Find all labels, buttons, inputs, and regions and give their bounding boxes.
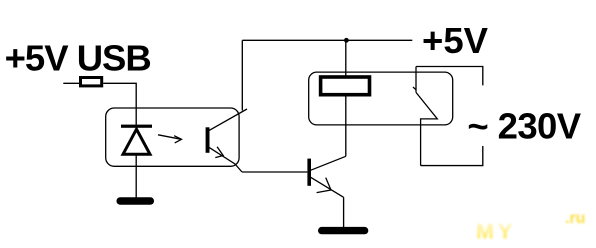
- relay K1 body: [309, 72, 453, 125]
- wire switch top to 230V line: [416, 67, 483, 86]
- wire relay coil to Q1 collector: [345, 97, 347, 157]
- svg-text:.ru: .ru: [565, 210, 585, 227]
- phototransistor of U1: [206, 109, 247, 172]
- LED light arrow: [158, 135, 182, 143]
- wire left stub of resistor R1: [63, 82, 79, 84]
- wire opto emitter to Q1 base: [242, 171, 307, 173]
- relay coil K1: [321, 77, 370, 95]
- wire Q1 emitter to ground: [343, 197, 345, 227]
- wire resistor R1 to LED anode: [103, 83, 136, 125]
- svg-text:+5V USB: +5V USB: [5, 37, 151, 78]
- ground GND2: [318, 227, 368, 234]
- node junction dot: [344, 38, 349, 43]
- wire junction to relay coil: [345, 40, 347, 77]
- resistor R1: [81, 78, 102, 86]
- switch S1 of relay: [413, 67, 437, 166]
- LED D1: [121, 125, 152, 155]
- transistor Q1: [307, 156, 345, 197]
- svg-text:+5V: +5V: [422, 20, 489, 61]
- wire LED cathode to ground: [135, 155, 137, 198]
- wire opto collector up to +5V rail: [241, 40, 243, 110]
- svg-text:MY: MY: [476, 220, 516, 244]
- optocoupler U1 body: [106, 108, 239, 166]
- svg-text:~ 230V: ~ 230V: [467, 106, 581, 147]
- ground GND1: [117, 197, 155, 204]
- wire +5V top rail: [242, 39, 412, 41]
- wire switch bottom to 230V line: [421, 146, 483, 166]
